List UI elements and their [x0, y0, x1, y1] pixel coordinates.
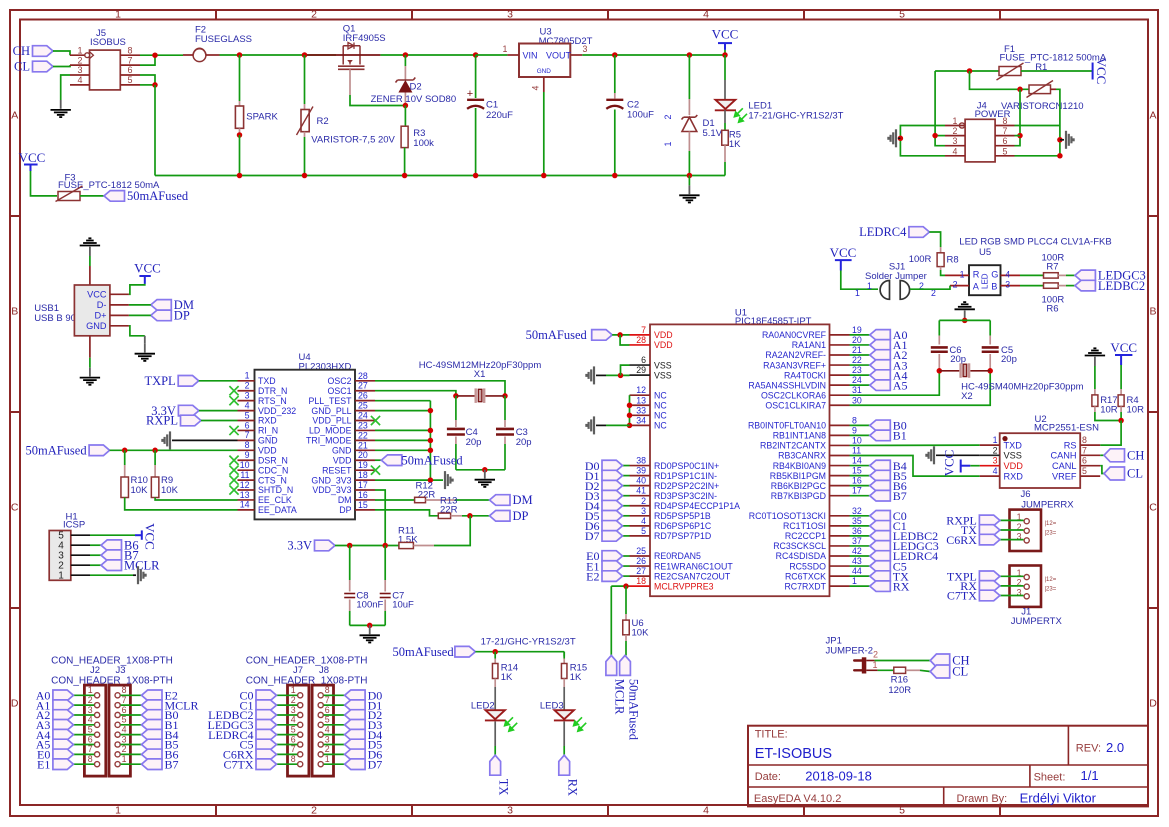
svg-text:DSR_N: DSR_N — [258, 455, 288, 465]
wire OSC2 CLKO to X2 — [850, 371, 940, 395]
svg-text:RB1INT1AN8: RB1INT1AN8 — [773, 431, 826, 441]
net flag MCLR H1 — [90, 564, 101, 566]
svg-text:B: B — [991, 282, 997, 292]
svg-text:RE1WRAN6C1OUT: RE1WRAN6C1OUT — [654, 561, 733, 571]
net flag DM — [490, 495, 511, 506]
wire VDD rail — [110, 449, 238, 451]
wire R3 to rail — [404, 148, 406, 176]
svg-text:6: 6 — [127, 65, 132, 75]
svg-text:GND_PLL: GND_PLL — [311, 406, 351, 416]
svg-text:50mAFused: 50mAFused — [526, 328, 588, 342]
junction R14 — [492, 649, 498, 655]
junction right gnd — [1057, 137, 1063, 143]
svg-text:22: 22 — [852, 355, 862, 365]
svg-text:NC: NC — [654, 411, 667, 421]
diode D1 zener 5.1V — [688, 55, 690, 99]
svg-text:CL: CL — [952, 665, 968, 679]
svg-text:50mAFused: 50mAFused — [392, 645, 454, 659]
svg-text:20p: 20p — [516, 437, 532, 448]
ground GND_3V3 — [444, 471, 446, 489]
svg-text:VCC: VCC — [1110, 340, 1137, 355]
svg-text:D7: D7 — [585, 529, 600, 543]
wire R17 to R4 — [1095, 412, 1121, 421]
svg-text:TXPL: TXPL — [144, 374, 175, 388]
svg-text:28: 28 — [358, 371, 368, 381]
svg-text:50mAFused: 50mAFused — [402, 453, 464, 467]
wire D- — [129, 304, 151, 306]
svg-text:25: 25 — [358, 401, 368, 411]
svg-text:GND: GND — [258, 436, 278, 446]
wire VCC pin — [129, 284, 145, 294]
svg-text:24: 24 — [358, 411, 368, 421]
svg-text:VDD: VDD — [654, 330, 673, 340]
svg-text:1: 1 — [115, 805, 121, 817]
wire U3 out — [582, 54, 725, 56]
svg-text:7: 7 — [1082, 445, 1087, 455]
svg-text:RC1T1OSI: RC1T1OSI — [783, 521, 826, 531]
net flag D4 — [324, 734, 345, 736]
ground NC — [593, 416, 595, 434]
resistor R15 1K — [563, 652, 565, 659]
svg-text:3: 3 — [1005, 280, 1010, 290]
wire to F1 — [935, 70, 999, 72]
svg-text:CH: CH — [1127, 449, 1144, 463]
ground U4 pin7 — [172, 439, 238, 441]
LED LED2 — [494, 687, 496, 710]
net flag E1 — [73, 763, 94, 765]
net flag CH U2 — [1100, 454, 1104, 456]
svg-text:3.3V: 3.3V — [287, 539, 312, 553]
svg-text:4: 4 — [88, 715, 93, 725]
svg-text:RB7KBI3PGD: RB7KBI3PGD — [771, 491, 826, 501]
net flag CL JP1 — [930, 665, 950, 678]
svg-text:20p: 20p — [466, 437, 482, 448]
svg-text:RC0T1OSOT13CKI: RC0T1OSOT13CKI — [749, 511, 826, 521]
svg-text:DP: DP — [339, 505, 351, 515]
svg-text:RD0PSP0C1IN+: RD0PSP0C1IN+ — [654, 461, 719, 471]
svg-text:12: 12 — [636, 385, 646, 395]
net flag C6RX — [277, 753, 298, 755]
net flag B1 — [121, 724, 142, 726]
svg-text:VCC: VCC — [830, 245, 857, 260]
svg-text:29: 29 — [636, 365, 646, 375]
svg-text:2: 2 — [291, 695, 296, 705]
svg-text:MCLR: MCLR — [124, 558, 160, 572]
net flag LEDBC2 — [277, 714, 298, 716]
svg-text:35: 35 — [852, 516, 862, 526]
net flag C6RX — [979, 534, 1000, 545]
svg-text:ICSP: ICSP — [63, 519, 85, 530]
wire LEDRC4 to R8 — [929, 232, 940, 247]
svg-text:9: 9 — [245, 450, 250, 460]
wire OSC1 to X1 — [375, 391, 456, 396]
wire J4 pin5 — [1015, 155, 1060, 157]
svg-text:TRI_MODE: TRI_MODE — [306, 436, 352, 446]
capacitor C1 220uF — [475, 55, 477, 98]
svg-text:10R: 10R — [1127, 405, 1145, 416]
svg-text:1: 1 — [291, 685, 296, 695]
svg-text:R1: R1 — [1035, 62, 1047, 73]
wire LED rail — [475, 651, 564, 653]
svg-text:JUMPERTX: JUMPERTX — [1011, 616, 1063, 627]
junction C2 top — [612, 52, 618, 58]
svg-text:4: 4 — [703, 9, 709, 21]
svg-text:7: 7 — [127, 55, 132, 65]
svg-text:25: 25 — [636, 546, 646, 556]
diode D2 zener — [404, 55, 406, 66]
svg-text:1K: 1K — [570, 672, 582, 683]
svg-text:OSC1: OSC1 — [328, 386, 352, 396]
wire jumper pin — [1000, 595, 1024, 597]
ground X2 top — [964, 311, 966, 320]
svg-text:VDD_3V3: VDD_3V3 — [312, 485, 351, 495]
svg-text:CON_HEADER_1X08-PTH: CON_HEADER_1X08-PTH — [51, 656, 173, 667]
junction X1 gnd — [482, 467, 488, 473]
ground at J5 pin3 — [60, 100, 62, 109]
power VCC H1 — [135, 534, 142, 536]
LED LED1 — [724, 55, 726, 80]
USB1 pins — [110, 293, 129, 295]
net flag A4 — [73, 734, 94, 736]
wire SJ1 to U5 pin2 — [910, 286, 950, 290]
svg-text:VARISTOR-7,5 20V: VARISTOR-7,5 20V — [311, 134, 395, 145]
net flag E0 — [73, 753, 94, 755]
net flag LEDBC2 — [1075, 280, 1096, 291]
junction J4 pin7 — [1017, 133, 1023, 139]
resistor U6 10K — [625, 586, 627, 614]
svg-text:CANL: CANL — [1052, 461, 1077, 471]
svg-text:19: 19 — [852, 325, 862, 335]
junction D2 top — [403, 52, 409, 58]
svg-text:1: 1 — [873, 660, 878, 670]
svg-text:CTS_N: CTS_N — [258, 475, 287, 485]
svg-text:D: D — [1149, 698, 1157, 710]
wire down to bottom rail — [154, 85, 156, 176]
svg-text:37: 37 — [852, 536, 862, 546]
ground VSS — [593, 366, 595, 384]
svg-text:43: 43 — [852, 556, 862, 566]
resistor R5 1K — [724, 110, 726, 123]
svg-text:TX: TX — [497, 779, 511, 796]
ground above USB1 — [89, 247, 91, 256]
svg-text:RB4KBI0AN9: RB4KBI0AN9 — [773, 461, 826, 471]
junction C7 — [382, 543, 388, 549]
svg-text:RC6TXCK: RC6TXCK — [785, 571, 826, 581]
svg-text:EasyEDA V4.10.2: EasyEDA V4.10.2 — [754, 793, 841, 805]
connector J1 JUMPERTX — [1010, 566, 1042, 607]
svg-text:2018-09-18: 2018-09-18 — [805, 769, 872, 784]
resistor R4 10R — [1120, 365, 1122, 389]
wire TRI_MODE — [375, 439, 430, 441]
svg-text:PLL_TEST: PLL_TEST — [308, 396, 352, 406]
svg-text:EE_DATA: EE_DATA — [258, 505, 297, 515]
net flag LEDGC3 — [1075, 270, 1096, 281]
svg-text:8: 8 — [1082, 435, 1087, 445]
svg-text:4: 4 — [953, 146, 958, 156]
wire jumper pin — [1000, 575, 1024, 577]
capacitor C2 100uF — [614, 55, 616, 93]
svg-text:1: 1 — [115, 9, 121, 21]
net flag B5 — [121, 744, 142, 746]
svg-text:ISOBUS: ISOBUS — [90, 37, 126, 48]
svg-text:11: 11 — [240, 470, 249, 480]
resistor R10 10K — [124, 450, 126, 465]
svg-text:USB B 90: USB B 90 — [34, 313, 76, 324]
LED LED3 — [563, 687, 565, 710]
svg-text:1: 1 — [77, 45, 82, 55]
svg-text:CH: CH — [13, 44, 30, 58]
svg-text:FUSE_PTC-1812 500mA: FUSE_PTC-1812 500mA — [1000, 53, 1107, 64]
junction F1 — [967, 68, 973, 74]
junction — [932, 133, 938, 139]
net flag 50mAFused U4 pin20 — [375, 459, 381, 461]
LED1 arrows — [734, 108, 747, 122]
svg-text:U5: U5 — [979, 247, 991, 258]
svg-text:RC4SDISDA: RC4SDISDA — [776, 551, 826, 561]
svg-text:RESET: RESET — [322, 465, 352, 475]
net flag 50mAFused U1 — [592, 330, 613, 341]
ground C8 C7 — [369, 625, 371, 634]
svg-text:3: 3 — [953, 136, 958, 146]
svg-text:RA1AN1: RA1AN1 — [792, 340, 826, 350]
svg-text:GND: GND — [332, 446, 352, 456]
svg-text:B: B — [11, 306, 18, 318]
svg-text:RE0RDAN5: RE0RDAN5 — [654, 551, 701, 561]
svg-text:VDD_PLL: VDD_PLL — [312, 416, 351, 426]
svg-text:VDD: VDD — [258, 446, 277, 456]
junction — [152, 82, 158, 88]
svg-text:7: 7 — [88, 744, 93, 754]
svg-text:36: 36 — [852, 526, 862, 536]
svg-text:21: 21 — [852, 345, 862, 355]
svg-text:J6: J6 — [1021, 489, 1031, 500]
wire F3 to flag — [80, 195, 104, 197]
svg-text:11: 11 — [852, 446, 861, 456]
svg-text:RI_N: RI_N — [258, 426, 278, 436]
wire MCLR node — [611, 585, 629, 587]
svg-text:1: 1 — [122, 754, 127, 764]
svg-text:A: A — [11, 110, 18, 122]
svg-text:B7: B7 — [165, 757, 179, 771]
wire caps bottom — [350, 624, 386, 626]
ground H1 — [133, 574, 136, 576]
wire U3 pin4 to rail — [543, 92, 545, 176]
svg-text:4: 4 — [1005, 270, 1010, 280]
svg-text:RA4T0CKI: RA4T0CKI — [784, 370, 826, 380]
svg-text:6: 6 — [325, 705, 330, 715]
net flag C0 — [277, 694, 298, 696]
svg-text:20p: 20p — [1001, 354, 1017, 365]
junction J4 pin5 — [1057, 153, 1063, 159]
svg-text:OSC1CLKIRA7: OSC1CLKIRA7 — [765, 400, 826, 410]
svg-text:23: 23 — [358, 420, 368, 430]
net flag CL U2 — [1100, 466, 1104, 474]
svg-text:4: 4 — [325, 724, 330, 734]
svg-text:R7: R7 — [1046, 262, 1058, 273]
svg-text:D+: D+ — [94, 311, 106, 321]
svg-text:CL: CL — [1127, 467, 1143, 481]
svg-text:20: 20 — [358, 450, 368, 460]
wire to R15 — [563, 652, 565, 657]
svg-text:RTS_N: RTS_N — [258, 396, 287, 406]
svg-text:VSS: VSS — [654, 370, 672, 380]
spark gap SPARK — [239, 55, 241, 101]
net flag B7 H1 — [90, 554, 101, 556]
net flag DP — [490, 511, 511, 522]
svg-text:DP: DP — [513, 509, 529, 523]
svg-text:16: 16 — [852, 476, 862, 486]
J4 pins right — [995, 125, 1014, 127]
junction caps gnd — [367, 623, 373, 629]
wire CL to J5 pin2 — [53, 65, 70, 66]
svg-text:17-21/GHC-YR1S2/3T: 17-21/GHC-YR1S2/3T — [481, 637, 576, 648]
junction C1 top — [473, 52, 479, 58]
svg-text:MCLR: MCLR — [613, 679, 627, 715]
svg-text:VDD: VDD — [333, 455, 352, 465]
svg-text:Drawn By:: Drawn By: — [957, 793, 1008, 805]
wire J5 pin8 to rail — [140, 54, 183, 56]
capacitor C5 20p — [989, 320, 991, 335]
svg-text:1: 1 — [325, 754, 330, 764]
svg-text:IRF4905S: IRF4905S — [343, 33, 386, 44]
svg-text:RX: RX — [893, 579, 910, 593]
svg-text:27: 27 — [358, 381, 368, 391]
svg-text:B1: B1 — [893, 429, 907, 443]
svg-text:15: 15 — [852, 466, 862, 476]
svg-text:RD4PSP4ECCP1P1A: RD4PSP4ECCP1P1A — [654, 501, 740, 511]
capacitor C8 100nF — [349, 546, 351, 581]
svg-text:RS: RS — [1064, 441, 1077, 451]
wire CANTX to U2 — [850, 444, 980, 446]
svg-text:10R: 10R — [1100, 405, 1118, 416]
svg-text:41: 41 — [636, 486, 646, 496]
svg-text:4: 4 — [77, 75, 82, 85]
svg-text:39: 39 — [636, 466, 646, 476]
svg-text:2: 2 — [122, 744, 127, 754]
svg-text:C: C — [1149, 502, 1157, 514]
svg-text:1: 1 — [867, 281, 872, 291]
svg-text:RB6KBI2PGC: RB6KBI2PGC — [771, 481, 827, 491]
svg-text:8: 8 — [325, 685, 330, 695]
svg-text:2: 2 — [641, 496, 646, 506]
svg-text:17: 17 — [852, 486, 862, 496]
wire U4 gnd bus — [429, 401, 431, 480]
svg-text:RC7RXDT: RC7RXDT — [784, 581, 826, 591]
net flag D2 — [324, 714, 345, 716]
svg-text:3: 3 — [245, 390, 250, 400]
J4 pins left — [945, 125, 965, 127]
resistor R3 — [404, 106, 406, 127]
svg-text:RA2AN2VREF-: RA2AN2VREF- — [765, 350, 826, 360]
svg-text:6: 6 — [1003, 136, 1008, 146]
junctions on bottom rail — [237, 173, 243, 179]
svg-text:12: 12 — [240, 480, 250, 490]
net flag C7TX — [979, 590, 1000, 601]
svg-text:X1: X1 — [474, 369, 486, 380]
wire Q1 gate down — [349, 69, 351, 95]
net flag B0 — [121, 714, 142, 716]
svg-text:5: 5 — [122, 715, 127, 725]
svg-text:100R: 100R — [909, 254, 932, 265]
net flag B7 — [121, 763, 142, 765]
net flag MCLR vertical — [610, 586, 612, 655]
svg-text:20p: 20p — [950, 354, 966, 365]
svg-text:5: 5 — [245, 410, 250, 420]
no-connect U4 pin19 — [371, 466, 380, 475]
svg-text:RB3CANRX: RB3CANRX — [778, 451, 826, 461]
wire NC bus — [629, 395, 631, 425]
ground left of J4 — [898, 137, 900, 139]
wire R1 junction to J4 pin7 pin6 — [1015, 89, 1021, 145]
wire rail Q1 to D2 — [380, 54, 475, 56]
junction D1 top — [687, 52, 693, 58]
svg-text:7: 7 — [1003, 126, 1008, 136]
J5 pin1 marker — [85, 53, 90, 58]
wire VCC to rail — [724, 50, 726, 55]
resistor R17 10R — [1094, 389, 1096, 395]
svg-text:22: 22 — [358, 430, 368, 440]
svg-text:8: 8 — [122, 685, 127, 695]
junction DP — [467, 513, 473, 519]
power VCC right — [1092, 63, 1094, 80]
J5 pins right — [120, 54, 140, 56]
wire GND pin — [129, 326, 145, 336]
U2 left pins — [980, 444, 1000, 446]
wire CANRX to U2 RXD — [850, 456, 980, 477]
svg-text:LED RGB SMD PLCC4 CLV1A-FKB: LED RGB SMD PLCC4 CLV1A-FKB — [959, 237, 1111, 248]
capacitor C4 20p — [455, 396, 457, 420]
wire jumper pin — [1000, 519, 1024, 521]
wire VSS — [606, 374, 630, 376]
svg-text:10K: 10K — [161, 485, 179, 496]
wire R9 to EE_CLK — [155, 498, 237, 501]
U1 right pins — [830, 334, 850, 336]
svg-text:R: R — [973, 269, 980, 279]
svg-text:10K: 10K — [131, 485, 149, 496]
svg-text:DP: DP — [174, 309, 190, 323]
svg-text:23: 23 — [852, 365, 862, 375]
wire R11 to DP — [434, 516, 470, 546]
wire J5 pin7 up — [140, 55, 155, 65]
wire TXPL — [199, 380, 238, 382]
svg-text:100k: 100k — [413, 138, 434, 149]
svg-text:5: 5 — [291, 724, 296, 734]
svg-text:A: A — [1149, 110, 1156, 122]
svg-text:NC: NC — [654, 390, 667, 400]
wire OSC1 CLKI to X2 — [850, 371, 991, 405]
wire J4 pin2 — [935, 135, 945, 137]
svg-text:DTR_N: DTR_N — [258, 386, 287, 396]
wire 3.3V — [199, 410, 238, 412]
ground U2 VSS — [933, 446, 935, 464]
resistor R14 1K — [494, 652, 496, 659]
wire H1 pin5 to VCC — [90, 534, 135, 536]
net flag TX — [979, 525, 1000, 536]
junction below spark — [237, 132, 243, 138]
junction R9 — [152, 448, 158, 454]
svg-text:C1: C1 — [486, 100, 498, 111]
svg-text:RD1PSP1C1IN-: RD1PSP1C1IN- — [654, 471, 717, 481]
wire J5 pin5 — [140, 84, 155, 86]
svg-text:RB0INT0FLT0AN10: RB0INT0FLT0AN10 — [748, 421, 826, 431]
svg-text:34: 34 — [636, 415, 646, 425]
svg-text:|23=: |23= — [1045, 587, 1057, 593]
svg-text:CON_HEADER_1X08-PTH: CON_HEADER_1X08-PTH — [246, 656, 368, 667]
svg-text:MCLRVPPRE3: MCLRVPPRE3 — [654, 581, 714, 591]
svg-text:31: 31 — [852, 385, 862, 395]
wire H1 pin1 gnd — [90, 574, 133, 576]
svg-text:18: 18 — [636, 576, 646, 586]
